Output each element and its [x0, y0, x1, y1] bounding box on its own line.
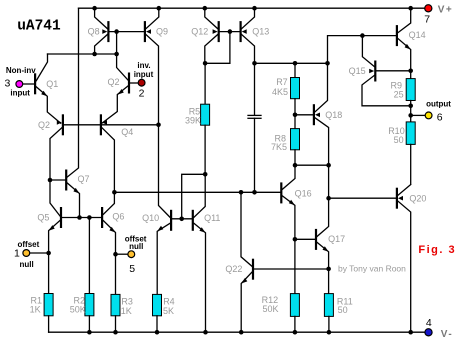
junction: [92, 6, 97, 11]
wire Q13 emitter to V+: [242, 8, 255, 28]
wire Q6 collector to Q4 collector node: [103, 192, 114, 214]
svg-text:uA741: uA741: [17, 19, 61, 35]
junction: [203, 330, 208, 335]
junction: [408, 6, 413, 11]
transistor Q11: [192, 210, 194, 231]
junction: [113, 330, 118, 335]
wire Q1 collector to node A: [36, 54, 47, 81]
wire R5 bottom: [204, 125, 206, 174]
svg-text:5K: 5K: [163, 306, 174, 316]
transistor Q13: [241, 21, 247, 42]
svg-text:Q5: Q5: [37, 213, 49, 223]
wire Q11 collector to R5 node: [194, 174, 205, 217]
wire Q1 emitter to Q3 emitter: [36, 87, 61, 123]
resistor R9: [406, 79, 415, 101]
junction: [203, 6, 208, 11]
V+ rail: [79, 7, 427, 9]
wire Q18 collector to bus: [315, 63, 328, 112]
svg-text:null: null: [20, 260, 34, 269]
svg-text:25: 25: [394, 89, 404, 99]
junction: [293, 237, 298, 242]
wire Q8 base to node A: [116, 32, 118, 54]
svg-text:Q18: Q18: [325, 110, 342, 120]
wire Q4 collector down to Q6 collector node: [102, 128, 114, 193]
wire Q18 emitter down: [315, 118, 329, 165]
svg-text:Fig. 3: Fig. 3: [418, 244, 456, 256]
transistor Q18: [314, 104, 320, 125]
wire R2 top: [88, 218, 90, 294]
transistor Q9: [145, 21, 151, 42]
wire to pin 6: [411, 114, 425, 116]
svg-text:Non-inv: Non-inv: [6, 66, 36, 75]
junction: [252, 6, 257, 11]
arrow Q17 emitter: [323, 246, 329, 252]
wire Q14 collector to V+: [398, 8, 411, 32]
arrow Q1 emitter: [41, 91, 47, 97]
junction offset null 5: [113, 252, 118, 257]
svg-text:Q4: Q4: [121, 127, 133, 137]
wire to pin 1: [27, 252, 49, 254]
junction: [203, 172, 208, 177]
svg-text:50K: 50K: [263, 304, 279, 314]
node B bus wire: [255, 62, 328, 64]
resistor R8: [291, 129, 300, 150]
junction: [114, 29, 119, 34]
wire R9 top: [410, 71, 412, 79]
resistor R1: [44, 294, 53, 316]
svg-text:Q20: Q20: [409, 194, 426, 204]
junction: [157, 6, 162, 11]
wire Q22 collector up: [241, 192, 252, 266]
wire R8 bottom: [294, 150, 296, 165]
arrow Q2 emitter: [118, 89, 124, 95]
wire Q1 base: [23, 83, 34, 85]
arrow Q5 emitter: [49, 225, 55, 231]
wire R7 top: [294, 63, 296, 77]
junction: [293, 113, 298, 118]
wire Q20 base: [329, 197, 396, 199]
junction: [203, 61, 208, 66]
junction: [327, 330, 332, 335]
pin 7 terminal: [425, 5, 432, 12]
svg-text:4: 4: [426, 317, 432, 329]
arrow Q10 emitter: [157, 226, 163, 232]
wire Q12-Q13 base: [220, 31, 240, 33]
junction: [77, 215, 82, 220]
pin 6 terminal: [425, 112, 432, 119]
junction: [326, 267, 331, 272]
arrow Q11 emitter: [199, 227, 205, 233]
wire Q16 collector: [282, 165, 295, 189]
svg-text:Q2: Q2: [38, 120, 50, 130]
wire Q14 emitter down: [398, 39, 411, 71]
resistor R3: [111, 294, 120, 315]
svg-text:2: 2: [139, 88, 145, 100]
svg-text:50K: 50K: [70, 304, 86, 314]
junction: [360, 33, 365, 38]
wire Q2 emitter to Q4 emitter: [102, 86, 128, 123]
transistor Q8: [102, 21, 108, 42]
wire R9 bottom to output node: [410, 101, 412, 122]
transistor Q16: [280, 182, 282, 203]
wire Q17 base: [295, 238, 315, 240]
wire R7-R8: [294, 99, 296, 129]
resistor R11: [324, 294, 333, 317]
wire Q9 collector down to Q10 collector: [146, 35, 170, 218]
wire Q12 base loop to collector: [205, 32, 230, 64]
svg-text:Q7: Q7: [78, 174, 90, 184]
svg-text:Q2: Q2: [108, 77, 120, 87]
wire Q11 emitter to V-: [194, 223, 206, 332]
junction output node: [408, 113, 413, 118]
svg-text:by Tony van Roon: by Tony van Roon: [338, 264, 406, 274]
transistor Q5: [60, 207, 62, 228]
svg-text:output: output: [426, 100, 451, 109]
svg-text:R3: R3: [121, 296, 133, 306]
wire Q5 emitter to R1: [49, 221, 60, 294]
svg-text:39K: 39K: [185, 116, 201, 126]
wire Q10/Q11 base to R5 node: [182, 174, 206, 219]
junction: [239, 330, 244, 335]
svg-text:input: input: [134, 70, 154, 79]
junction: [92, 52, 97, 57]
wire R1 to V-: [48, 316, 50, 332]
junction: [293, 61, 298, 66]
transistor Q20: [397, 188, 403, 209]
wire Q10-Q11 base: [172, 218, 192, 220]
svg-text:7: 7: [424, 14, 430, 26]
junction: [239, 190, 244, 195]
wire Q2 base: [130, 82, 138, 84]
junction: [326, 196, 331, 201]
wire Q5-Q6 base: [62, 217, 101, 219]
resistor R2: [85, 294, 94, 316]
svg-text:input: input: [10, 89, 30, 98]
wire capacitor bottom: [254, 118, 256, 192]
svg-text:R7: R7: [276, 77, 288, 87]
junction: [408, 104, 413, 109]
junction: [114, 52, 119, 57]
wire Q16 emitter to R12: [282, 196, 295, 294]
arrow Q14 emitter: [405, 44, 411, 50]
wire Q10 emitter to R4: [157, 223, 170, 294]
wire Q8 collector to node A: [95, 35, 108, 54]
wire R3 to V-: [115, 316, 117, 332]
transistor Q22: [252, 259, 254, 280]
svg-text:null: null: [129, 242, 143, 251]
junction offset null 1: [46, 251, 51, 256]
wire Q15 collector from Q14 base: [362, 36, 374, 67]
svg-text:6: 6: [437, 112, 443, 124]
wire Q17 emitter to R11: [317, 242, 329, 293]
svg-text:50: 50: [394, 135, 404, 145]
pin 1 terminal: [23, 250, 30, 257]
junction: [155, 330, 160, 335]
svg-text:1K: 1K: [30, 304, 41, 314]
pin 4 terminal: [425, 329, 432, 336]
transistor Q17: [315, 229, 317, 250]
wire capacitor top: [254, 63, 256, 115]
transistor Q1: [34, 73, 36, 94]
wire to pin 5: [116, 253, 129, 255]
svg-text:R4: R4: [163, 296, 175, 306]
svg-text:inv.: inv.: [137, 61, 150, 70]
svg-text:Q16: Q16: [295, 188, 312, 198]
svg-text:50: 50: [338, 305, 348, 315]
wire Q20 collector to V-: [398, 201, 411, 332]
wire R5 top: [204, 63, 206, 104]
capacitor: [248, 115, 261, 118]
resistor R12: [290, 294, 299, 317]
transistor Q14: [396, 25, 398, 46]
svg-text:1K: 1K: [121, 306, 132, 316]
wire Q2 collector to node A: [117, 54, 128, 80]
svg-text:Q17: Q17: [328, 234, 345, 244]
wire R10 to Q20 emitter: [410, 144, 412, 184]
resistor R4: [153, 294, 162, 315]
svg-text:Q9: Q9: [156, 26, 168, 36]
resistor R5: [201, 104, 210, 125]
junction: [293, 330, 298, 335]
V- rail: [49, 331, 426, 333]
svg-text:offset: offset: [18, 240, 40, 249]
transistor Q6: [101, 207, 103, 228]
transistor Q10: [170, 210, 172, 231]
svg-text:3: 3: [5, 77, 11, 89]
transistor Q15: [369, 61, 375, 82]
wire R2 to V-: [88, 316, 90, 332]
svg-text:Q8: Q8: [88, 27, 100, 37]
resistor R10: [406, 122, 415, 144]
junction: [112, 190, 117, 195]
transistor Q4: [101, 114, 107, 135]
wire Q22 emitter to V-: [241, 272, 252, 332]
wire Q15 emitter to R9 bottom: [362, 76, 411, 106]
arrow Q6 emitter: [109, 227, 115, 233]
wire Q8 emitter to V+: [95, 8, 108, 28]
junction: [408, 330, 413, 335]
wire Q3-Q4 base to Q9 collector: [64, 124, 159, 126]
svg-text:Q1: Q1: [46, 79, 58, 89]
svg-text:Q6: Q6: [112, 211, 124, 221]
wire Q13 collector to bus: [242, 35, 255, 64]
junction: [326, 163, 331, 168]
svg-text:1: 1: [14, 247, 20, 259]
pin 5 terminal: [128, 251, 135, 258]
svg-text:Q10: Q10: [142, 213, 159, 223]
svg-text:Q22: Q22: [225, 264, 242, 274]
svg-text:5: 5: [129, 263, 135, 275]
pin 2 terminal: [138, 79, 145, 86]
junction: [87, 330, 92, 335]
arrow Q22 emitter: [241, 278, 247, 284]
wire Q5 collector to Q7 base: [50, 180, 60, 216]
junction: [179, 217, 184, 222]
junction: [325, 61, 330, 66]
wire Q7 emitter to Q5/Q6 base line: [67, 183, 79, 218]
pin 3 terminal: [16, 81, 23, 88]
junction: [48, 178, 53, 183]
wire R4 to V-: [156, 316, 158, 332]
junction: [156, 123, 161, 128]
wire Q17 collector up: [317, 165, 329, 236]
wire Q6 emitter to R3: [103, 221, 115, 295]
wire Q15 base: [376, 70, 410, 72]
junction: [252, 61, 257, 66]
wire Q22 base to Q17 emitter: [254, 268, 329, 270]
svg-text:Q13: Q13: [252, 26, 269, 36]
wire Q16 base line from Q4/Q6 node: [114, 191, 280, 193]
wire Q18 base: [295, 114, 313, 116]
junction: [87, 215, 92, 220]
svg-text:Q15: Q15: [349, 66, 366, 76]
svg-text:Q12: Q12: [191, 26, 208, 36]
svg-text:Q14: Q14: [409, 30, 426, 40]
junction: [293, 163, 298, 168]
resistor R7: [291, 78, 300, 99]
wire Q9 emitter to V+: [146, 8, 159, 28]
wire V+ to Q7 collector: [67, 8, 78, 177]
junction: [252, 190, 257, 195]
transistor Q3 (labelled Q2): [57, 114, 63, 135]
arrow Q7 emitter: [73, 188, 79, 194]
wire Q12 emitter to V+: [205, 8, 218, 28]
wire Q8-Q9 base: [110, 31, 144, 33]
svg-text:7K5: 7K5: [271, 142, 287, 152]
transistor Q2: [128, 73, 130, 94]
svg-text:4K5: 4K5: [272, 87, 288, 97]
wire R11 to V-: [328, 316, 330, 332]
wire Q20 emitter: [398, 185, 411, 196]
wire Q12 collector to R5 node: [205, 35, 218, 64]
junction: [228, 29, 233, 34]
node A wire (Q1/Q2/Q8 collectors): [48, 53, 117, 55]
svg-text:Q11: Q11: [204, 213, 220, 223]
wire Q3 collector to Q7 base node: [50, 128, 62, 180]
wire Q14 base from bus: [328, 36, 396, 64]
transistor Q12: [213, 21, 219, 42]
junction: [408, 69, 413, 74]
wire R8/Q18 emitter link: [295, 164, 329, 166]
transistor Q7: [65, 170, 67, 191]
svg-text:V+: V+: [438, 4, 454, 15]
svg-text:V-: V-: [441, 329, 453, 340]
wire Q7 base: [50, 179, 65, 181]
arrow Q16 emitter: [289, 200, 295, 206]
wire R12 to V-: [294, 316, 296, 332]
